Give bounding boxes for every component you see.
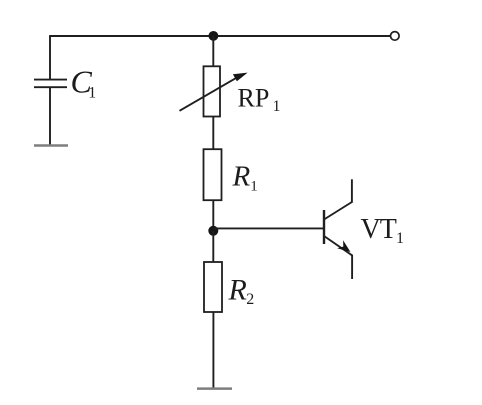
resistor R1 [204, 149, 222, 200]
ground (bar under C1) [34, 144, 68, 147]
svg-text:R: R [228, 273, 247, 306]
wire node B to R2 [212, 231, 214, 262]
potentiometer RP1 [180, 66, 248, 116]
wire base (node B to VT1 base) [213, 227, 324, 229]
wire R1 to node B [212, 200, 214, 231]
transistor VT1 [324, 179, 352, 279]
capacitor C1 [34, 80, 67, 88]
svg-text:2: 2 [246, 291, 254, 308]
label VT1 [361, 214, 405, 247]
label RP1 [238, 84, 281, 116]
svg-text:1: 1 [396, 230, 404, 247]
label C1 [71, 63, 97, 101]
wire R2 bottom lead [212, 312, 214, 389]
svg-text:R: R [232, 161, 251, 193]
wire left vertical to C1 [49, 35, 51, 79]
wire node A to RP1 [212, 36, 214, 67]
svg-text:RP: RP [238, 84, 270, 113]
svg-text:VT: VT [361, 214, 397, 245]
wire top horizontal bus [50, 35, 390, 37]
resistor R2 [204, 262, 222, 312]
label R1 [232, 161, 258, 195]
svg-text:1: 1 [88, 84, 96, 101]
label R2 [228, 273, 255, 308]
wire C1 bottom lead [49, 87, 51, 145]
svg-text:1: 1 [250, 179, 257, 195]
node A (junction dot top) [209, 31, 219, 41]
node B (junction dot middle) [208, 226, 218, 236]
svg-text:1: 1 [273, 98, 281, 115]
wire RP1 to R1 [212, 117, 214, 150]
ground (bar under R2) [197, 387, 232, 390]
terminal (open circle) top right [391, 32, 400, 41]
